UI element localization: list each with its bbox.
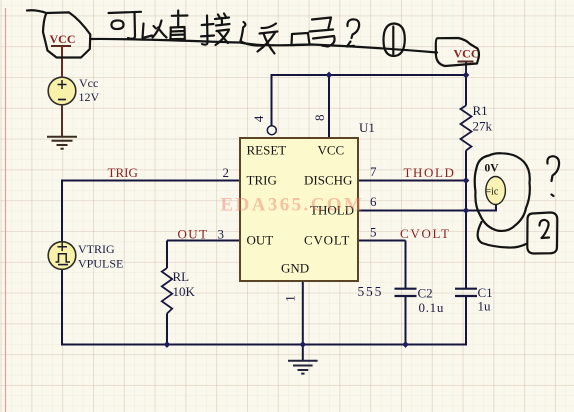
- svg-text:THOLD: THOLD: [404, 165, 456, 180]
- svg-text:CVOLT: CVOLT: [400, 226, 451, 241]
- plus sign: [58, 243, 68, 252]
- svg-text:7: 7: [370, 164, 377, 179]
- svg-text:2: 2: [223, 165, 230, 180]
- wire pin8 vertical: [328, 75, 330, 138]
- hand blob tail: [478, 222, 526, 248]
- wire OUT to RL: [167, 241, 240, 269]
- junction node VCC/R1: [463, 72, 470, 79]
- svg-text:0V: 0V: [485, 163, 500, 175]
- svg-text:TRIG: TRIG: [247, 173, 277, 188]
- hand char jie hand radical: [201, 16, 214, 45]
- power port VCC right bar: [458, 61, 474, 63]
- resistor R1 zigzag: [461, 106, 472, 151]
- hand blob around VCC left: [27, 10, 90, 57]
- svg-text:OUT: OUT: [178, 227, 209, 242]
- svg-text:OUT: OUT: [247, 233, 274, 248]
- svg-text:DISCHG: DISCHG: [304, 173, 352, 188]
- svg-text:VTRIG: VTRIG: [78, 242, 115, 256]
- hand squiggle 2 in box: [540, 220, 550, 238]
- svg-text:4: 4: [251, 115, 266, 122]
- pulse glyph: [56, 254, 71, 262]
- hand char ke mouth loop: [111, 20, 123, 29]
- ground symbol left: [47, 137, 77, 149]
- junction node THOLD pin7: [463, 177, 470, 184]
- wire C1 bottom lead: [465, 296, 467, 346]
- junction node GND/bottom: [299, 341, 306, 348]
- svg-text:VCC: VCC: [318, 143, 345, 158]
- hand char ma horse: [310, 18, 335, 47]
- svg-text:3: 3: [218, 227, 225, 242]
- svg-text:EDA365.COM: EDA365.COM: [221, 195, 365, 216]
- hand char zhe upper: [260, 24, 278, 34]
- svg-text:12V: 12V: [79, 90, 100, 104]
- wire R1 to C1 vertical: [465, 75, 467, 289]
- wire ground stub bottom: [302, 346, 304, 361]
- svg-text:=ic: =ic: [486, 187, 499, 198]
- voltage source VTRIG circle: [48, 242, 76, 270]
- minus sign: [58, 264, 68, 266]
- hand blob around VCC right: [436, 38, 479, 66]
- hand blob around ic marker: [475, 153, 530, 231]
- junction node pin8/top: [326, 72, 333, 79]
- wire pin4 vertical: [271, 74, 273, 126]
- capacitor C1 plates: [455, 289, 477, 296]
- hand question tick: [347, 42, 354, 47]
- svg-text:8: 8: [312, 115, 327, 122]
- hand char zhe cross tails: [258, 33, 276, 54]
- hand char zhe dot: [243, 22, 245, 28]
- junction node pin6: [463, 207, 470, 214]
- svg-text:RL: RL: [173, 269, 190, 284]
- svg-text:RESET: RESET: [247, 143, 287, 158]
- hand question mark top: [347, 19, 359, 38]
- svg-text:Vcc: Vcc: [79, 76, 98, 90]
- hand char yi person: [153, 21, 167, 38]
- hand rounded box: [527, 213, 557, 254]
- wire VCC source top lead: [61, 46, 63, 78]
- svg-text:1: 1: [283, 295, 298, 302]
- svg-text:U1: U1: [359, 120, 375, 135]
- hand question mark right: [547, 156, 559, 181]
- svg-text:TRIG: TRIG: [108, 165, 138, 180]
- hand char ke top bar: [109, 12, 142, 13]
- hand char zhe walk: [241, 29, 263, 46]
- junction node RL/bottom: [164, 341, 171, 348]
- wire VCC source bottom lead: [61, 105, 63, 137]
- wire pin7 DISCHG to node: [358, 180, 466, 182]
- plus sign: [58, 80, 67, 89]
- wire RL bottom lead: [166, 314, 168, 346]
- hand underline stroke: [91, 39, 438, 53]
- power port VCC left bar: [51, 45, 71, 47]
- minus sign: [58, 99, 66, 101]
- hand char zhi box: [170, 27, 185, 39]
- ground symbol bottom: [288, 361, 318, 374]
- op IC U1 555 body: [240, 138, 358, 281]
- hand char ma mouth: [292, 33, 310, 45]
- power stub VCC right: [465, 62, 467, 76]
- voltage source Vcc circle: [48, 77, 76, 105]
- sheet border line: [5, 8, 7, 412]
- junction node C2/bottom: [402, 341, 409, 348]
- wire ic-marker stub: [466, 204, 496, 212]
- wire C2 bottom lead: [405, 296, 407, 346]
- hand char jie right part: [215, 14, 230, 46]
- svg-text:VCC: VCC: [50, 32, 76, 46]
- hand char zhi cross: [172, 11, 188, 28]
- capacitor C2 plates: [395, 289, 417, 296]
- svg-text:R1: R1: [473, 103, 488, 118]
- wire left rail upper: [61, 180, 63, 245]
- svg-text:10K: 10K: [173, 284, 196, 299]
- wire left rail lower: [61, 268, 63, 346]
- pin 4 bubble: [267, 126, 276, 135]
- svg-text:GND: GND: [281, 261, 309, 276]
- svg-text:27k: 27k: [473, 119, 493, 134]
- svg-text:6: 6: [370, 194, 377, 209]
- wire pin6 THOLD to node: [358, 210, 466, 212]
- ic initial-condition marker ellipse: [486, 177, 506, 205]
- wire TRIG horizontal: [62, 180, 240, 182]
- hand annotation group: [27, 10, 559, 253]
- hand char yi dot: [154, 26, 157, 29]
- svg-text:CVOLT: CVOLT: [304, 233, 350, 248]
- svg-text:1u: 1u: [478, 299, 492, 314]
- wire pin1 GND vertical: [302, 281, 304, 346]
- hand char ke vertical hook: [128, 12, 135, 39]
- hand char yi left: [143, 24, 153, 39]
- wire bottom ground rail: [62, 344, 466, 346]
- hand oval with bar: [384, 24, 405, 57]
- resistor RL zigzag: [162, 268, 172, 314]
- svg-text:VPULSE: VPULSE: [78, 257, 123, 271]
- hand question dot right: [552, 195, 554, 197]
- svg-text:0.1u: 0.1u: [419, 300, 445, 315]
- wire top net VCC horizontal: [272, 74, 467, 76]
- svg-text:555: 555: [358, 284, 384, 299]
- wire pin5 CVOLT to C2: [358, 241, 406, 289]
- svg-text:C2: C2: [418, 286, 433, 301]
- svg-text:5: 5: [370, 225, 377, 240]
